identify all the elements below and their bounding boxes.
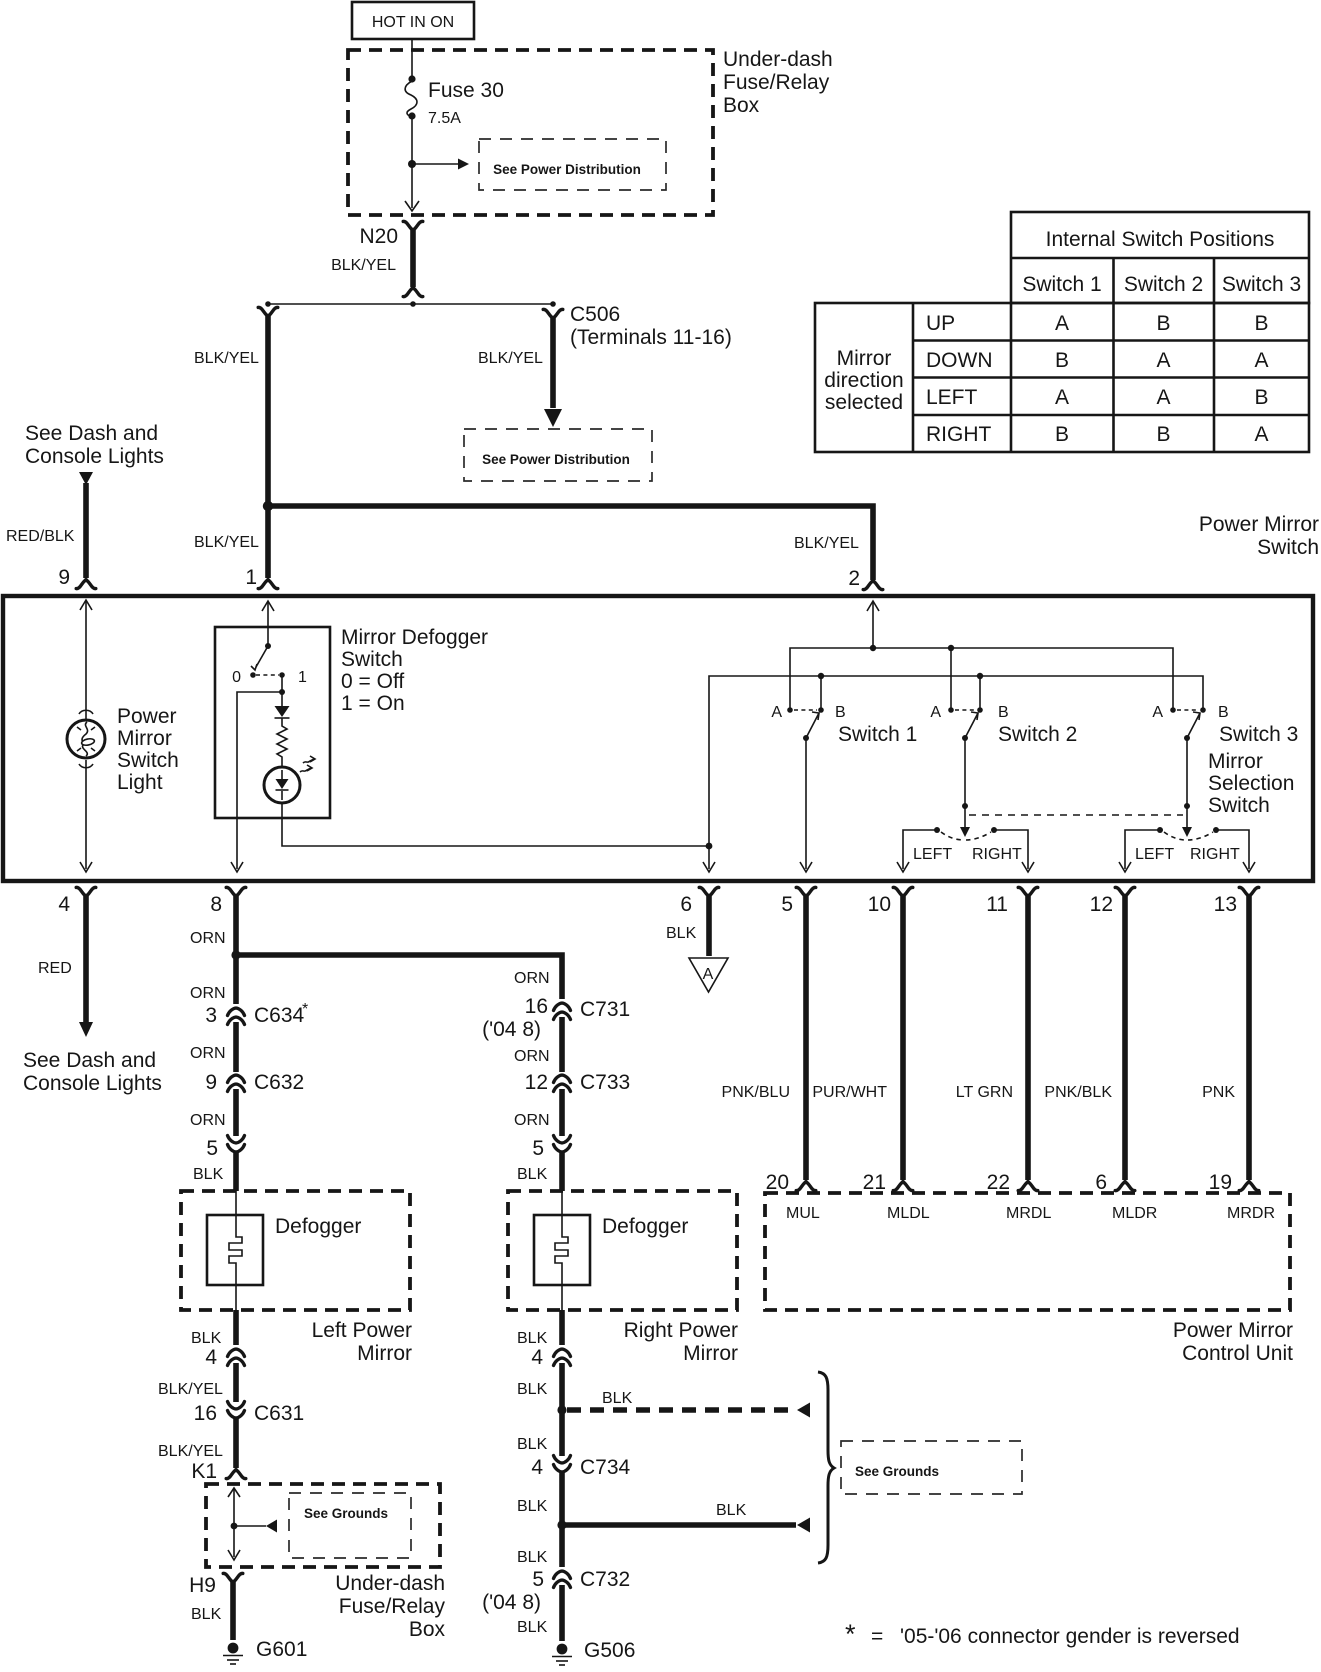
- svg-text:Mirror: Mirror: [837, 347, 892, 370]
- label: Right Power Mirror: [624, 1319, 738, 1365]
- svg-text:C733: C733: [580, 1071, 630, 1094]
- under-dash fuse/relay box (top): [348, 50, 713, 215]
- connector C734: [531, 1456, 630, 1480]
- switch 3: [1152, 704, 1298, 746]
- wire ORN right mirror branch: [514, 970, 562, 999]
- wire: main bus to terminal 2: [268, 506, 873, 580]
- connector C506: [543, 303, 732, 349]
- svg-text:PNK: PNK: [1202, 1084, 1235, 1101]
- svg-text:Switch 3: Switch 3: [1222, 273, 1301, 296]
- label: Power Mirror Switch Light: [117, 705, 179, 794]
- wire terminal 1 internal: [262, 601, 274, 649]
- svg-text:12: 12: [525, 1071, 548, 1094]
- wire LED return to bus: [282, 803, 712, 849]
- terminal 2: [848, 567, 882, 590]
- svg-text:A: A: [1156, 386, 1170, 409]
- svg-text:BLK: BLK: [517, 1619, 548, 1636]
- svg-text:20: 20: [766, 1171, 789, 1194]
- svg-text:H9: H9: [189, 1574, 216, 1597]
- svg-text:BLK: BLK: [191, 1606, 222, 1623]
- svg-text:C634: C634: [254, 1004, 305, 1027]
- note: asterisk legend: [845, 1619, 1240, 1649]
- junction + arrow to See Power Distribution: [408, 159, 469, 170]
- resistor of defogger indicator: [277, 718, 287, 767]
- terminal 1: [245, 566, 277, 589]
- label: See Dash and Console Lights (bottom): [23, 1049, 162, 1095]
- svg-text:A: A: [1055, 386, 1069, 409]
- wire switch 3 pole to selector: [1182, 738, 1192, 837]
- terminal H9: [189, 1573, 243, 1597]
- wire ORN to connector 5: [190, 1089, 236, 1136]
- svg-text:21: 21: [863, 1171, 886, 1194]
- under-dash fuse/relay box (bottom): [206, 1484, 440, 1567]
- defogger element (left): [207, 1191, 361, 1310]
- svg-text:16: 16: [194, 1402, 217, 1425]
- svg-text:BLK: BLK: [193, 1166, 224, 1183]
- dashed mechanical linkage: [969, 814, 1183, 816]
- svg-text:Switch 2: Switch 2: [998, 723, 1077, 746]
- solid BLK wire to grounds: [562, 1502, 810, 1533]
- wire BLK to G601: [191, 1582, 233, 1640]
- svg-text:6: 6: [680, 893, 692, 916]
- label BLK/YEL below junction: [194, 534, 259, 551]
- connector C731: [482, 995, 630, 1041]
- svg-text:Fuse/Relay: Fuse/Relay: [723, 71, 830, 94]
- table row stub: Mirror direction selected: [824, 347, 903, 414]
- svg-text:19: 19: [1209, 1171, 1232, 1194]
- wire LT GRN pin 22: [956, 896, 1038, 1194]
- table cell values: [1055, 312, 1269, 446]
- svg-text:Control Unit: Control Unit: [1182, 1342, 1293, 1365]
- connector 5 (right mirror): [532, 1136, 570, 1161]
- wire BLK into left mirror: [193, 1152, 236, 1191]
- terminal 8: [210, 887, 245, 916]
- connector C733: [525, 1071, 631, 1094]
- diode of defogger indicator: [275, 692, 290, 718]
- svg-text:4: 4: [531, 1346, 543, 1369]
- svg-text:A: A: [1254, 349, 1268, 372]
- svg-text:N20: N20: [359, 225, 398, 248]
- wire ORN to connector 5 (right): [514, 1089, 562, 1136]
- svg-text:B: B: [835, 704, 846, 721]
- svg-text:G506: G506: [584, 1639, 635, 1662]
- svg-text:B: B: [1156, 312, 1170, 335]
- svg-text:0 = Off: 0 = Off: [341, 670, 404, 693]
- svg-text:Mirror Defogger: Mirror Defogger: [341, 626, 488, 649]
- svg-text:RIGHT: RIGHT: [1190, 846, 1240, 863]
- wire BLK below right mirror: [517, 1310, 562, 1347]
- svg-text:Switch 1: Switch 1: [1022, 273, 1101, 296]
- svg-text:4: 4: [531, 1456, 543, 1479]
- junction main bus: [263, 501, 273, 511]
- svg-text:BLK/YEL: BLK/YEL: [194, 350, 259, 367]
- svg-text:Switch 1: Switch 1: [838, 723, 917, 746]
- svg-text:B: B: [1055, 423, 1069, 446]
- svg-text:ORN: ORN: [190, 930, 226, 947]
- svg-text:Mirror: Mirror: [117, 727, 172, 750]
- svg-text:=: =: [871, 1625, 883, 1648]
- label BLK/YEL near terminal 2: [794, 535, 859, 552]
- LED indicator lamp: [264, 767, 300, 803]
- wire BLK/YEL to K1: [158, 1418, 236, 1468]
- svg-text:12: 12: [1090, 893, 1113, 916]
- svg-text:Power Mirror: Power Mirror: [1199, 513, 1319, 536]
- wire selector right to terminal 13: [1216, 830, 1255, 872]
- wire BLK/YEL to C631: [158, 1363, 236, 1402]
- LED light rays: [300, 756, 315, 772]
- svg-text:B: B: [998, 704, 1009, 721]
- wire internal ground link: [228, 1488, 240, 1560]
- svg-text:5: 5: [781, 893, 793, 916]
- svg-text:A: A: [703, 966, 714, 983]
- node See Grounds (right): [841, 1441, 1022, 1494]
- mirror selection switch left half: [913, 827, 1022, 863]
- svg-text:Light: Light: [117, 771, 163, 794]
- svg-text:PNK/BLU: PNK/BLU: [722, 1084, 790, 1101]
- wire PNK/BLK pin 6: [1044, 896, 1134, 1194]
- label: Fuse 30 7.5A: [428, 79, 504, 127]
- terminal 9: [58, 566, 95, 589]
- svg-text:BLK: BLK: [517, 1549, 548, 1566]
- lamp: power mirror switch light: [67, 710, 105, 758]
- svg-text:('04 8): ('04 8): [482, 1018, 541, 1041]
- svg-text:'05-'06 connector gender is re: '05-'06 connector gender is reversed: [900, 1625, 1240, 1648]
- mirror defogger switch box: [215, 627, 330, 818]
- svg-text:Console Lights: Console Lights: [23, 1072, 162, 1095]
- connector C634: [205, 1001, 308, 1027]
- svg-text:B: B: [1254, 312, 1268, 335]
- node See Power Distribution (top): [479, 139, 666, 190]
- svg-text:C734: C734: [580, 1456, 631, 1479]
- wire ORN to C733: [514, 1017, 562, 1072]
- wire BLK to solid ground junction: [517, 1472, 567, 1530]
- svg-text:11: 11: [986, 893, 1008, 916]
- label: See Dash and Console Lights (top): [25, 422, 164, 468]
- svg-text:Console Lights: Console Lights: [25, 445, 164, 468]
- wire PUR/WHT pin 21: [812, 896, 912, 1194]
- svg-text:BLK: BLK: [191, 1330, 222, 1347]
- svg-text:3: 3: [205, 1004, 217, 1027]
- wire switch 2 pole to selector: [960, 738, 970, 837]
- svg-text:RED/BLK: RED/BLK: [6, 528, 75, 545]
- wire C506 BLK/YEL arrow down: [478, 318, 562, 427]
- defogger switch contact 0: [232, 669, 256, 686]
- svg-text:A: A: [1156, 349, 1170, 372]
- wire BLK to G506: [517, 1585, 562, 1641]
- svg-text:See Grounds: See Grounds: [304, 1506, 388, 1521]
- table direction rows: [926, 312, 993, 446]
- svg-text:*: *: [302, 1001, 308, 1018]
- svg-text:Power: Power: [117, 705, 177, 728]
- svg-text:ORN: ORN: [514, 1048, 550, 1065]
- svg-text:Mirror: Mirror: [1208, 750, 1263, 773]
- svg-text:MRDR: MRDR: [1227, 1205, 1275, 1222]
- svg-text:C631: C631: [254, 1402, 304, 1425]
- svg-text:Box: Box: [723, 94, 760, 117]
- svg-text:9: 9: [205, 1071, 217, 1094]
- svg-text:Fuse 30: Fuse 30: [428, 79, 504, 102]
- power mirror control unit box: [765, 1193, 1290, 1310]
- svg-text:BLK: BLK: [517, 1381, 548, 1398]
- connector N20: [359, 221, 422, 248]
- power mirror switch box: [3, 596, 1313, 881]
- svg-text:1 = On: 1 = On: [341, 692, 405, 715]
- wire BLK to dashed ground junction: [517, 1363, 567, 1415]
- wire BLK terminal 6: [666, 896, 709, 956]
- wire BLK to C732: [517, 1525, 562, 1567]
- svg-text:ORN: ORN: [190, 1045, 226, 1062]
- switch 2: [930, 704, 1077, 746]
- svg-text:Under-dash: Under-dash: [335, 1572, 445, 1595]
- svg-text:4: 4: [58, 893, 70, 916]
- svg-text:DOWN: DOWN: [926, 349, 993, 372]
- svg-text:BLK/YEL: BLK/YEL: [794, 535, 859, 552]
- svg-text:16: 16: [525, 995, 548, 1018]
- svg-text:A: A: [1254, 423, 1268, 446]
- wire RED to dash lights: [38, 896, 93, 1037]
- svg-text:BLK: BLK: [517, 1166, 548, 1183]
- svg-text:LEFT: LEFT: [1135, 846, 1174, 863]
- wire terminal 9 internal: [80, 600, 92, 719]
- svg-text:Switch: Switch: [117, 749, 179, 772]
- svg-text:RIGHT: RIGHT: [926, 423, 992, 446]
- svg-text:4: 4: [205, 1346, 217, 1369]
- svg-text:LT GRN: LT GRN: [956, 1084, 1013, 1101]
- wire contact 1 to junction: [279, 675, 285, 695]
- defogger element (right): [534, 1191, 688, 1310]
- mirror selection switch right half: [1135, 827, 1240, 863]
- svg-text:Switch 3: Switch 3: [1219, 723, 1298, 746]
- svg-text:10: 10: [868, 893, 891, 916]
- wire selector left to terminal 12: [1119, 830, 1160, 872]
- svg-text:MLDR: MLDR: [1112, 1205, 1157, 1222]
- svg-text:Left Power: Left Power: [312, 1319, 412, 1342]
- svg-text:Mirror: Mirror: [683, 1342, 738, 1365]
- svg-text:BLK: BLK: [716, 1502, 747, 1519]
- svg-text:5: 5: [532, 1568, 544, 1591]
- svg-text:Box: Box: [409, 1618, 446, 1641]
- wire BLK below left mirror: [191, 1310, 236, 1347]
- svg-text:1: 1: [245, 566, 257, 589]
- svg-text:B: B: [1055, 349, 1069, 372]
- svg-text:*: *: [845, 1619, 856, 1649]
- svg-text:BLK: BLK: [517, 1436, 548, 1453]
- svg-text:2: 2: [848, 567, 860, 590]
- svg-text:A: A: [771, 704, 782, 721]
- svg-text:See Grounds: See Grounds: [855, 1464, 939, 1479]
- right power mirror box: [508, 1191, 737, 1310]
- svg-text:Selection: Selection: [1208, 772, 1294, 795]
- svg-text:Internal Switch Positions: Internal Switch Positions: [1046, 228, 1275, 251]
- terminal K1: [191, 1460, 245, 1483]
- svg-text:MLDL: MLDL: [887, 1205, 930, 1222]
- svg-text:Power Mirror: Power Mirror: [1173, 1319, 1293, 1342]
- wire PNK pin 19: [1202, 896, 1259, 1194]
- svg-text:Mirror: Mirror: [357, 1342, 412, 1365]
- svg-text:BLK: BLK: [517, 1498, 548, 1515]
- node See Power Distribution (lower): [464, 429, 652, 481]
- label: Left Power Mirror: [312, 1319, 412, 1365]
- node HOT IN ON: [352, 2, 474, 39]
- pin name labels: [786, 1205, 1275, 1222]
- terminal 4: [58, 887, 95, 916]
- svg-text:BLK: BLK: [602, 1390, 633, 1407]
- internal switch positions table: [815, 212, 1309, 452]
- svg-text:Fuse/Relay: Fuse/Relay: [339, 1595, 446, 1618]
- svg-text:HOT IN ON: HOT IN ON: [372, 14, 454, 31]
- svg-text:5: 5: [206, 1137, 218, 1160]
- svg-text:PUR/WHT: PUR/WHT: [812, 1084, 887, 1101]
- svg-text:BLK/YEL: BLK/YEL: [158, 1443, 223, 1460]
- svg-text:A: A: [1152, 704, 1163, 721]
- connector 4 (left mirror): [205, 1346, 244, 1369]
- wire from HOT IN ON to fuse: [408, 39, 415, 83]
- svg-text:13: 13: [1214, 893, 1237, 916]
- junction + arrow to See Grounds (left): [231, 1520, 277, 1533]
- brace grouping ground wires: [818, 1372, 834, 1563]
- wire terminal 1 branch BLK/YEL: [194, 307, 278, 578]
- terminal 5: [781, 887, 815, 916]
- svg-text:MRDL: MRDL: [1006, 1205, 1051, 1222]
- connector 5 (left mirror): [206, 1136, 244, 1161]
- wire: horizontal distribution line: [265, 301, 556, 307]
- wire bus line B (to B contacts): [709, 673, 1203, 846]
- svg-text:PNK/BLK: PNK/BLK: [1044, 1084, 1112, 1101]
- switch 1: [771, 704, 917, 746]
- terminal 13: [1214, 887, 1259, 916]
- table header text: [1022, 228, 1301, 296]
- wire BLK into right mirror: [517, 1152, 562, 1191]
- label: Under-dash Fuse/Relay Box (bottom): [335, 1572, 445, 1641]
- connector C631: [194, 1402, 305, 1426]
- connector C732: [482, 1568, 630, 1614]
- terminal 6: [680, 887, 718, 916]
- svg-text:G601: G601: [256, 1638, 307, 1661]
- svg-text:BLK/YEL: BLK/YEL: [331, 257, 396, 274]
- ground G506: [552, 1639, 635, 1665]
- wire bus line A (to A contacts): [790, 645, 1173, 710]
- wire junction to terminal 8: [231, 692, 282, 872]
- wire drops to switch contacts: [821, 648, 980, 710]
- svg-text:C632: C632: [254, 1071, 304, 1094]
- svg-text:1: 1: [298, 669, 307, 686]
- terminal 10: [868, 887, 913, 916]
- svg-text:BLK/YEL: BLK/YEL: [194, 534, 259, 551]
- wire ORN to C632: [190, 1022, 236, 1072]
- wire switch 1 pole to terminal 5: [800, 738, 812, 872]
- svg-text:Under-dash: Under-dash: [723, 48, 833, 71]
- wire ORN terminal 8 to junction: [190, 896, 241, 960]
- svg-text:B: B: [1218, 704, 1229, 721]
- wire RED/BLK from dash lights: [6, 472, 93, 578]
- arrow crossing box edge above N20: [405, 201, 419, 211]
- svg-text:K1: K1: [191, 1460, 217, 1483]
- wire terminal 2 internal: [867, 601, 879, 648]
- svg-text:0: 0: [232, 669, 241, 686]
- svg-text:B: B: [1156, 423, 1170, 446]
- svg-text:Switch: Switch: [1208, 794, 1270, 817]
- svg-text:9: 9: [58, 566, 70, 589]
- svg-text:('04 8): ('04 8): [482, 1591, 541, 1614]
- dashed throw between 0 and 1: [256, 674, 279, 676]
- svg-text:Switch 2: Switch 2: [1124, 273, 1203, 296]
- svg-text:MUL: MUL: [786, 1205, 820, 1222]
- svg-text:RIGHT: RIGHT: [972, 846, 1022, 863]
- node See Grounds (left): [289, 1493, 411, 1558]
- svg-text:ORN: ORN: [514, 970, 550, 987]
- svg-text:C731: C731: [580, 998, 630, 1021]
- left power mirror box: [181, 1191, 410, 1310]
- svg-text:ORN: ORN: [190, 1112, 226, 1129]
- label: Power Mirror Control Unit: [1173, 1319, 1293, 1365]
- wire lamp to terminal 4: [79, 760, 93, 872]
- terminal 12: [1090, 887, 1135, 916]
- svg-text:RED: RED: [38, 960, 72, 977]
- svg-text:Defogger: Defogger: [602, 1215, 688, 1238]
- svg-text:BLK: BLK: [666, 925, 697, 942]
- node A reference triangle: [689, 958, 728, 992]
- svg-text:6: 6: [1095, 1171, 1107, 1194]
- svg-text:selected: selected: [825, 391, 903, 414]
- svg-text:ORN: ORN: [514, 1112, 550, 1129]
- wire PNK/BLU pin 20: [722, 896, 816, 1194]
- svg-text:8: 8: [210, 893, 222, 916]
- svg-text:Right Power: Right Power: [624, 1319, 738, 1342]
- svg-text:(Terminals 11-16): (Terminals 11-16): [570, 326, 732, 349]
- fuse F30 element: [405, 81, 417, 120]
- wire bus B down to terminal 6: [703, 846, 715, 872]
- connector 4 (right mirror): [531, 1346, 570, 1369]
- svg-text:A: A: [930, 704, 941, 721]
- wire ORN to C634: [190, 955, 236, 1004]
- svg-text:See Dash and: See Dash and: [23, 1049, 156, 1072]
- wire ORN branch to right mirror: [236, 955, 562, 988]
- svg-text:22: 22: [987, 1171, 1010, 1194]
- svg-text:A: A: [1055, 312, 1069, 335]
- svg-text:5: 5: [532, 1137, 544, 1160]
- ground G601: [223, 1638, 307, 1664]
- svg-text:B: B: [1254, 386, 1268, 409]
- dashed BLK wire to grounds: [567, 1390, 810, 1418]
- svg-text:BLK/YEL: BLK/YEL: [158, 1381, 223, 1398]
- svg-text:C506: C506: [570, 303, 620, 326]
- svg-text:7.5A: 7.5A: [428, 110, 461, 127]
- svg-text:See Dash and: See Dash and: [25, 422, 158, 445]
- svg-text:See Power Distribution: See Power Distribution: [493, 162, 641, 177]
- wire BLK to C734: [517, 1410, 562, 1456]
- defogger switch lever: [251, 646, 268, 670]
- terminal 11: [986, 887, 1038, 916]
- wire selector left to terminal 10: [897, 830, 937, 872]
- label: Mirror Defogger Switch 0=Off 1=On: [341, 626, 488, 715]
- connector C632: [205, 1071, 304, 1094]
- label: Mirror Selection Switch: [1208, 750, 1294, 817]
- svg-text:Defogger: Defogger: [275, 1215, 361, 1238]
- svg-text:C732: C732: [580, 1568, 630, 1591]
- wire fuse to box bottom: [411, 117, 413, 208]
- svg-text:LEFT: LEFT: [913, 846, 952, 863]
- svg-text:BLK: BLK: [517, 1330, 548, 1347]
- defogger switch contact 1: [279, 669, 307, 686]
- wire selector right to terminal 11: [994, 830, 1034, 872]
- svg-text:UP: UP: [926, 312, 955, 335]
- svg-text:See Power Distribution: See Power Distribution: [482, 452, 630, 467]
- svg-text:LEFT: LEFT: [926, 386, 978, 409]
- label: Power Mirror Switch: [1199, 513, 1319, 559]
- svg-text:direction: direction: [824, 369, 903, 392]
- svg-text:Switch: Switch: [1257, 536, 1319, 559]
- svg-text:Switch: Switch: [341, 648, 403, 671]
